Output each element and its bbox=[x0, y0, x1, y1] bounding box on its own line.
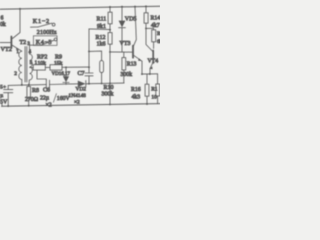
svg-text:270Ω: 270Ω bbox=[25, 97, 39, 103]
node R8 top junction bbox=[28, 84, 30, 86]
wire mid rail left section bbox=[8, 84, 46, 87]
svg-text:15k: 15k bbox=[54, 60, 63, 66]
resistor R8 bbox=[27, 85, 31, 106]
svg-text:VD16,17: VD16,17 bbox=[52, 72, 71, 77]
transistor Q VT2 bbox=[11, 37, 21, 52]
svg-text:5V: 5V bbox=[0, 100, 8, 106]
capacitor C7 bbox=[85, 67, 93, 83]
node VD16 junction bbox=[65, 66, 67, 68]
svg-text:6k8: 6k8 bbox=[157, 39, 160, 45]
capacitor C6 bbox=[46, 80, 49, 89]
svg-text:R10: R10 bbox=[104, 85, 114, 91]
node VD2/C7 junction bbox=[88, 83, 90, 85]
core lines bbox=[24, 47, 26, 83]
svg-text:R8: R8 bbox=[32, 88, 39, 94]
svg-text:300k: 300k bbox=[102, 91, 114, 97]
node R8 bottom bbox=[28, 105, 30, 107]
wire top supply rail bbox=[0, 6, 160, 9]
svg-text:VT4: VT4 bbox=[148, 58, 159, 64]
diode VD5 zener bbox=[119, 7, 126, 52]
wire R11 junction to C7 branch bbox=[89, 28, 110, 31]
svg-text:VT2: VT2 bbox=[1, 46, 12, 53]
svg-text:C6: C6 bbox=[43, 88, 50, 94]
node top rail / R11 junction bbox=[109, 6, 111, 8]
wire R9 to C7 node bbox=[62, 66, 89, 68]
wire VT2 collector from top rail bbox=[13, 9, 21, 39]
wire T2 tap to RP2 bbox=[30, 66, 34, 68]
node base wire junction bbox=[109, 51, 111, 53]
svg-text:10k: 10k bbox=[38, 60, 47, 66]
node T2 bottom junction bbox=[21, 84, 23, 86]
svg-text:1N4148: 1N4148 bbox=[69, 93, 87, 99]
node top rail / R14 junction bbox=[145, 5, 147, 7]
wire left edge stub bbox=[1, 103, 3, 106]
wire VT3 base bbox=[110, 51, 133, 53]
svg-text:R16: R16 bbox=[131, 87, 141, 93]
resistor R15 bbox=[146, 28, 156, 48]
wire emitter rail bbox=[142, 73, 158, 75]
svg-text:0k: 0k bbox=[0, 22, 6, 28]
wire C7 branch vertical bbox=[88, 29, 90, 67]
resistor R10 bbox=[89, 51, 104, 83]
svg-text:2100Hz: 2100Hz bbox=[37, 30, 57, 36]
svg-text:K4−5: K4−5 bbox=[36, 39, 52, 46]
node top rail / VT3 collector junction bbox=[134, 6, 136, 8]
node R10 branch junction bbox=[88, 50, 90, 52]
transistor Q VT4 bbox=[146, 28, 153, 74]
node R12 line crossing junction bbox=[109, 82, 111, 84]
svg-text:R11: R11 bbox=[97, 17, 107, 23]
diode VD16 bbox=[63, 67, 69, 84]
node top rail / VT2 collector junction bbox=[19, 8, 21, 10]
svg-text:6: 6 bbox=[1, 16, 4, 22]
wire T2 pin3 up to switch K4-5 bbox=[30, 45, 42, 54]
resistor R12 bbox=[108, 30, 112, 105]
node R12 bottom bbox=[109, 103, 111, 105]
svg-text:+: + bbox=[3, 85, 6, 91]
node top rail / VD5 junction bbox=[121, 6, 123, 8]
svg-text:VD2: VD2 bbox=[76, 87, 87, 93]
resistor R14 bbox=[144, 6, 148, 28]
svg-text:4k3: 4k3 bbox=[132, 95, 141, 101]
resistor R9 bbox=[45, 65, 62, 70]
resistor R13 bbox=[122, 52, 126, 83]
svg-text:1k6: 1k6 bbox=[97, 41, 106, 47]
node C7 top junction bbox=[88, 66, 90, 68]
paper background bbox=[0, 0, 160, 110]
svg-text:C7: C7 bbox=[78, 71, 85, 77]
resistor R11 bbox=[108, 7, 112, 30]
resistor R17 edge bbox=[156, 74, 160, 104]
capacitor C5 electrolytic bbox=[4, 85, 13, 106]
switch K1-2 bbox=[31, 23, 55, 27]
svg-text:2: 2 bbox=[14, 71, 17, 77]
node VT4 base junction bbox=[145, 27, 147, 29]
wire C6 to VD2 bbox=[50, 83, 78, 86]
svg-text:R14: R14 bbox=[151, 16, 161, 22]
svg-text:R12: R12 bbox=[96, 35, 106, 41]
svg-text:R15: R15 bbox=[157, 31, 160, 37]
wire lower mid rail right section bbox=[89, 82, 124, 85]
wire T2 primary bottom to rail bbox=[21, 80, 23, 85]
node C5 bottom bbox=[7, 105, 9, 107]
diode VD2 bbox=[78, 81, 89, 87]
potentiometer RP2 bbox=[33, 65, 46, 81]
node R10 bottom junction bbox=[101, 83, 103, 85]
right secondary winding bbox=[30, 54, 33, 80]
node R11/R12 junction bbox=[109, 29, 111, 31]
svg-text:R13: R13 bbox=[127, 61, 137, 67]
wire T2 secondary bottom stub bbox=[28, 80, 30, 85]
transistor Q VT3 bbox=[133, 7, 142, 75]
svg-text:22µ: 22µ bbox=[40, 96, 50, 102]
wire VT2 base lead from left edge bbox=[0, 42, 11, 44]
svg-text:VT3: VT3 bbox=[120, 41, 131, 47]
switch K4-5 with box bbox=[33, 36, 57, 46]
left primary winding bbox=[19, 51, 22, 79]
svg-text:300k: 300k bbox=[121, 72, 133, 78]
svg-text:T2: T2 bbox=[20, 40, 27, 46]
svg-text:10: 10 bbox=[151, 94, 157, 100]
svg-text:K1−2: K1−2 bbox=[33, 18, 50, 25]
svg-text:VD5: VD5 bbox=[125, 16, 137, 22]
svg-text:R1: R1 bbox=[151, 87, 158, 93]
transformer T2 bbox=[19, 47, 33, 83]
resistor R16 bbox=[145, 74, 149, 104]
wire bottom ground rail bbox=[2, 104, 161, 107]
node R16 bottom bbox=[146, 103, 148, 105]
